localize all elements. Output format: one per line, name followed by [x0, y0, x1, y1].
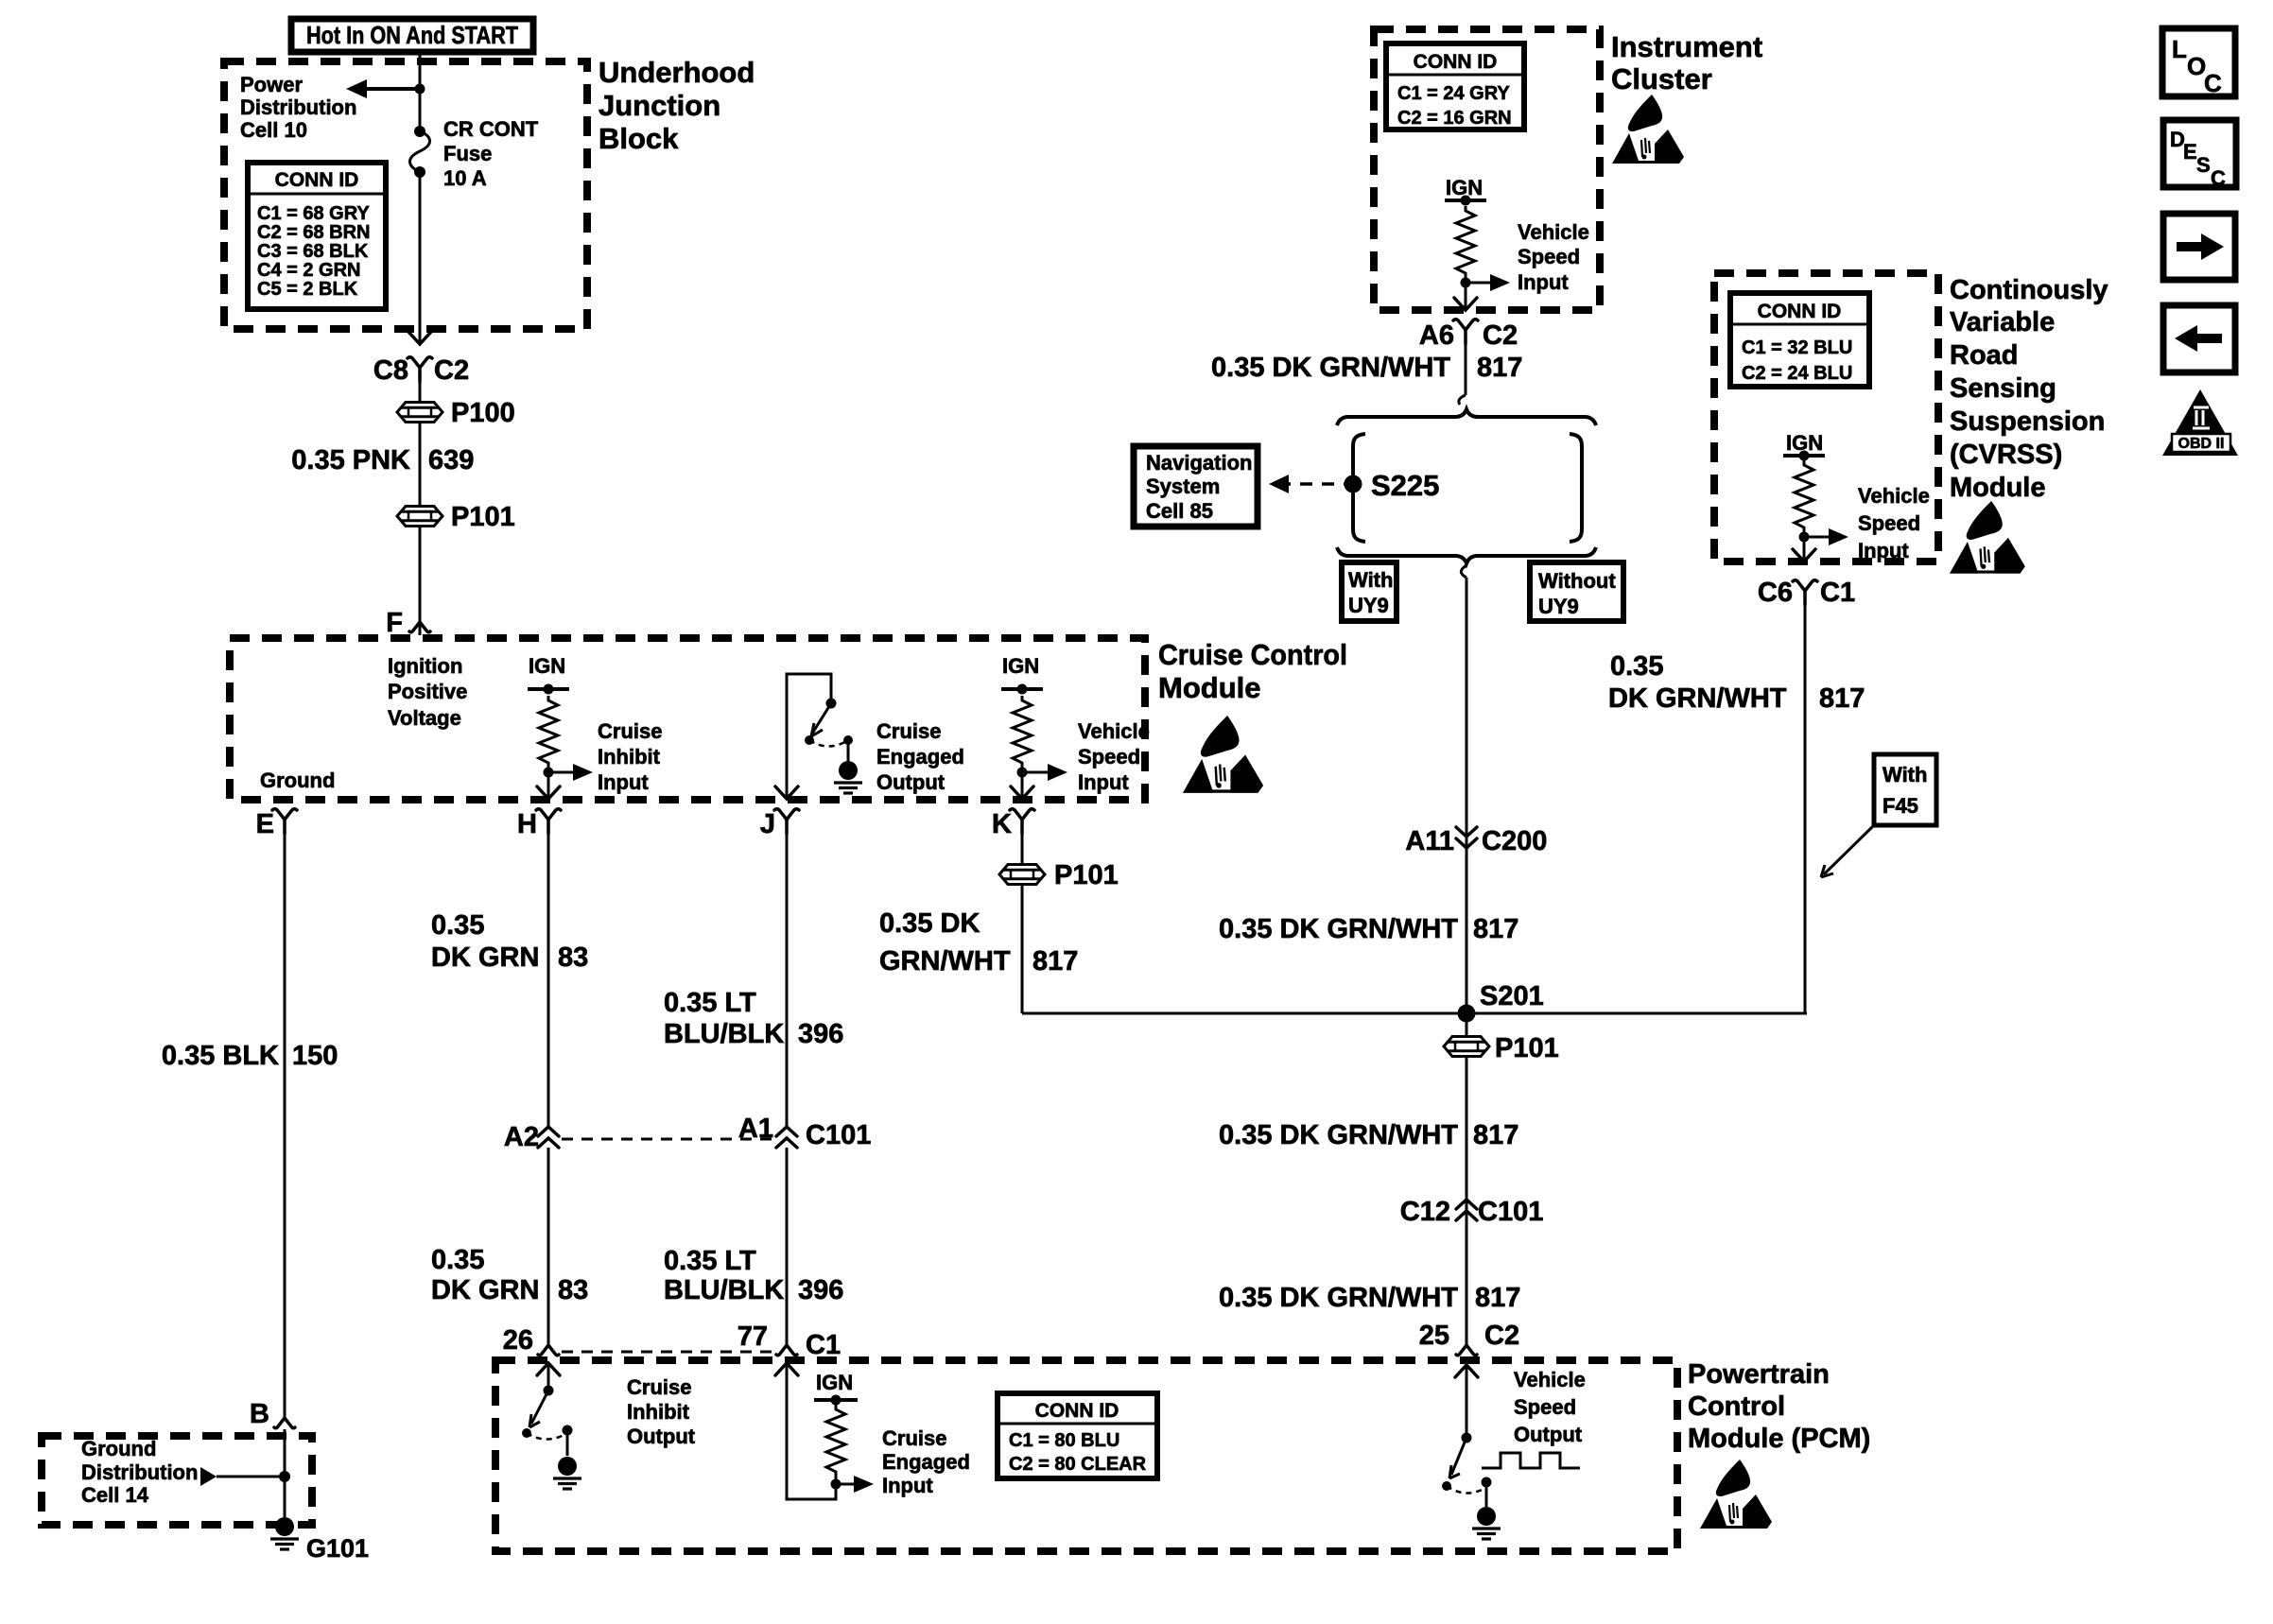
svg-text:C6: C6 [1758, 578, 1793, 608]
svg-text:IGN: IGN [1002, 654, 1039, 678]
svg-text:Cruise: Cruise [627, 1375, 691, 1399]
svg-text:Vehicle: Vehicle [1518, 220, 1589, 244]
svg-text:CR CONT: CR CONT [443, 117, 539, 141]
svg-text:25: 25 [1419, 1321, 1449, 1351]
svg-text:396: 396 [798, 1019, 843, 1049]
svg-text:F: F [386, 608, 403, 638]
svg-text:A1: A1 [738, 1114, 773, 1144]
svg-text:Inhibit: Inhibit [627, 1400, 690, 1424]
svg-text:C1: C1 [1820, 578, 1855, 608]
svg-text:0.35: 0.35 [431, 1245, 484, 1275]
svg-text:Voltage: Voltage [388, 706, 461, 730]
svg-text:System: System [1146, 475, 1220, 498]
svg-text:H: H [517, 809, 537, 839]
svg-text:C4 = 2 GRN: C4 = 2 GRN [257, 260, 360, 281]
svg-text:C2 = 80 CLEAR: C2 = 80 CLEAR [1009, 1454, 1147, 1475]
svg-text:G101: G101 [306, 1534, 369, 1563]
svg-text:B: B [250, 1399, 269, 1429]
svg-text:Cruise: Cruise [876, 719, 941, 743]
svg-text:Instrument: Instrument [1611, 30, 1762, 63]
svg-text:CONN ID: CONN ID [1414, 51, 1498, 73]
svg-text:C5 = 2 BLK: C5 = 2 BLK [257, 279, 358, 300]
svg-text:26: 26 [503, 1325, 533, 1356]
svg-text:Continously: Continously [1950, 275, 2108, 305]
svg-text:Distribution: Distribution [81, 1460, 198, 1484]
svg-text:C200: C200 [1482, 826, 1547, 856]
svg-text:Navigation: Navigation [1146, 451, 1252, 475]
svg-text:Powertrain: Powertrain [1688, 1359, 1830, 1390]
svg-text:CONN ID: CONN ID [275, 169, 359, 191]
svg-text:Hot In ON And START: Hot In ON And START [306, 21, 518, 49]
svg-text:Cruise: Cruise [598, 719, 662, 743]
svg-text:Cell 10: Cell 10 [240, 118, 307, 142]
svg-text:DK GRN/WHT: DK GRN/WHT [1608, 683, 1787, 714]
svg-text:Ignition: Ignition [388, 654, 462, 678]
svg-text:(CVRSS): (CVRSS) [1950, 440, 2062, 470]
svg-text:0.35 LT: 0.35 LT [664, 988, 756, 1018]
svg-text:C: C [2204, 69, 2222, 97]
svg-text:0.35 BLK: 0.35 BLK [162, 1041, 279, 1071]
svg-text:0.35: 0.35 [1610, 651, 1663, 682]
svg-text:Speed: Speed [1514, 1395, 1576, 1419]
svg-text:Vehicle: Vehicle [1078, 719, 1150, 743]
svg-text:J: J [760, 809, 775, 839]
svg-text:817: 817 [1473, 1120, 1518, 1150]
svg-text:Output: Output [627, 1425, 696, 1448]
svg-text:Output: Output [1514, 1423, 1583, 1446]
svg-text:S201: S201 [1480, 981, 1544, 1011]
svg-text:C101: C101 [1478, 1197, 1543, 1227]
svg-text:IGN: IGN [816, 1371, 853, 1394]
svg-text:C2: C2 [1483, 320, 1518, 351]
svg-text:Underhood: Underhood [599, 56, 755, 89]
svg-text:Power: Power [240, 73, 303, 96]
svg-text:Cell 85: Cell 85 [1146, 499, 1213, 523]
svg-text:Ground: Ground [81, 1437, 156, 1460]
svg-text:150: 150 [292, 1041, 338, 1071]
svg-text:P100: P100 [451, 398, 515, 428]
svg-text:C1 = 68 GRY: C1 = 68 GRY [257, 203, 370, 224]
svg-text:0.35 DK GRN/WHT: 0.35 DK GRN/WHT [1219, 914, 1458, 944]
svg-text:83: 83 [558, 1275, 588, 1305]
svg-text:817: 817 [1819, 683, 1865, 714]
svg-text:C: C [2211, 166, 2226, 190]
svg-text:C3 = 68 BLK: C3 = 68 BLK [257, 241, 369, 262]
svg-text:0.35 LT: 0.35 LT [664, 1246, 756, 1276]
svg-text:DK GRN: DK GRN [431, 942, 539, 973]
svg-text:0.35 PNK: 0.35 PNK [291, 445, 410, 475]
svg-text:639: 639 [428, 445, 474, 475]
svg-text:Block: Block [599, 122, 679, 155]
svg-text:With: With [1348, 568, 1393, 592]
svg-text:DK GRN: DK GRN [431, 1275, 539, 1305]
svg-text:Input: Input [882, 1474, 933, 1497]
svg-text:CONN ID: CONN ID [1035, 1400, 1119, 1422]
svg-text:A6: A6 [1419, 320, 1454, 351]
svg-text:Cruise: Cruise [882, 1426, 946, 1450]
svg-text:L: L [2172, 35, 2187, 63]
svg-text:Vehicle: Vehicle [1514, 1368, 1586, 1391]
svg-text:Without: Without [1538, 569, 1616, 593]
svg-text:Cruise Control: Cruise Control [1158, 638, 1347, 671]
svg-text:C2 = 16 GRN: C2 = 16 GRN [1397, 108, 1512, 129]
svg-text:Cluster: Cluster [1611, 62, 1712, 95]
svg-text:396: 396 [798, 1275, 843, 1305]
svg-text:Input: Input [598, 770, 649, 794]
svg-text:C101: C101 [806, 1120, 871, 1150]
svg-text:C1 = 32 BLU: C1 = 32 BLU [1742, 337, 1852, 358]
svg-text:Module (PCM): Module (PCM) [1688, 1424, 1870, 1454]
svg-text:Distribution: Distribution [240, 95, 356, 119]
svg-text:817: 817 [1475, 1283, 1520, 1313]
svg-text:817: 817 [1477, 353, 1522, 383]
svg-text:817: 817 [1473, 914, 1518, 944]
svg-text:817: 817 [1032, 946, 1078, 976]
svg-text:Engaged: Engaged [882, 1450, 970, 1474]
svg-text:Speed: Speed [1858, 511, 1920, 535]
svg-text:A11: A11 [1405, 826, 1454, 856]
svg-text:GRN/WHT: GRN/WHT [879, 946, 1011, 976]
svg-text:Cell 14: Cell 14 [81, 1483, 149, 1507]
svg-text:83: 83 [558, 942, 588, 973]
svg-text:IGN: IGN [529, 654, 565, 678]
svg-text:Engaged: Engaged [876, 745, 964, 769]
svg-text:F45: F45 [1883, 794, 1918, 818]
svg-text:P101: P101 [1054, 860, 1119, 890]
svg-text:Vehicle: Vehicle [1858, 484, 1930, 508]
svg-text:C2 = 68 BRN: C2 = 68 BRN [257, 222, 371, 243]
svg-text:UY9: UY9 [1538, 595, 1579, 618]
svg-text:0.35 DK: 0.35 DK [879, 908, 980, 939]
svg-text:Ground: Ground [260, 769, 335, 792]
svg-text:With: With [1883, 763, 1927, 786]
svg-text:Module: Module [1158, 671, 1261, 704]
svg-text:P101: P101 [451, 502, 515, 532]
svg-text:Input: Input [1078, 770, 1129, 794]
svg-text:Output: Output [876, 770, 946, 794]
svg-text:C8: C8 [373, 355, 408, 386]
svg-text:Fuse: Fuse [443, 142, 492, 165]
svg-text:Positive: Positive [388, 680, 467, 703]
svg-text:C2: C2 [1484, 1321, 1519, 1351]
svg-text:Junction: Junction [599, 89, 720, 122]
svg-text:BLU/BLK: BLU/BLK [664, 1019, 784, 1049]
svg-text:Inhibit: Inhibit [598, 745, 661, 769]
svg-text:C2: C2 [434, 355, 469, 386]
svg-text:E: E [256, 809, 274, 839]
svg-text:UY9: UY9 [1348, 594, 1389, 617]
svg-text:0.35 DK GRN/WHT: 0.35 DK GRN/WHT [1219, 1283, 1458, 1313]
svg-text:A2: A2 [504, 1122, 539, 1152]
svg-text:0.35 DK GRN/WHT: 0.35 DK GRN/WHT [1211, 353, 1450, 383]
svg-text:C12: C12 [1400, 1197, 1450, 1227]
svg-text:C1 = 24 GRY: C1 = 24 GRY [1397, 83, 1510, 104]
svg-text:0.35 DK GRN/WHT: 0.35 DK GRN/WHT [1219, 1120, 1458, 1150]
svg-text:K: K [992, 809, 1012, 839]
svg-text:Control: Control [1688, 1391, 1785, 1422]
svg-text:S225: S225 [1371, 469, 1439, 502]
svg-text:C1: C1 [806, 1330, 841, 1360]
svg-text:Input: Input [1518, 270, 1569, 294]
svg-text:Speed: Speed [1078, 745, 1140, 769]
svg-text:Input: Input [1858, 539, 1909, 562]
svg-text:BLU/BLK: BLU/BLK [664, 1275, 784, 1305]
svg-text:10 A: 10 A [443, 166, 487, 190]
svg-text:C1 = 80 BLU: C1 = 80 BLU [1009, 1430, 1119, 1451]
svg-text:P101: P101 [1495, 1033, 1559, 1063]
svg-text:0.35: 0.35 [431, 910, 484, 941]
svg-text:77: 77 [737, 1322, 768, 1352]
svg-text:Speed: Speed [1518, 245, 1580, 268]
svg-text:Module: Module [1950, 473, 2046, 503]
svg-text:Road: Road [1950, 340, 2019, 371]
svg-text:S: S [2196, 153, 2211, 177]
svg-text:Suspension: Suspension [1950, 406, 2105, 437]
svg-text:Sensing: Sensing [1950, 373, 2056, 404]
svg-text:C2 = 24 BLU: C2 = 24 BLU [1742, 363, 1852, 384]
svg-text:E: E [2183, 140, 2197, 164]
svg-text:Variable: Variable [1950, 307, 2055, 337]
svg-text:CONN ID: CONN ID [1758, 301, 1842, 322]
svg-text:OBD II: OBD II [2178, 436, 2225, 452]
